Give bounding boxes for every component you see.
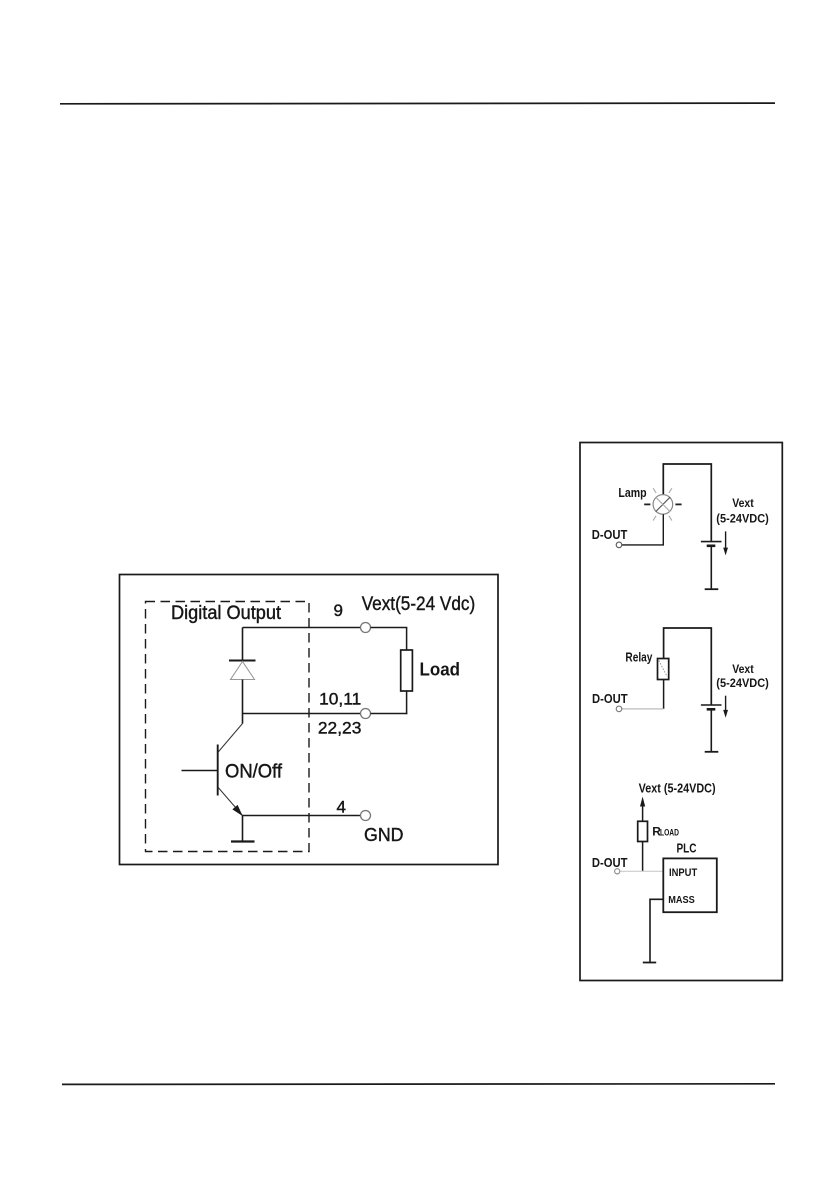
svg-text:(5-24VDC): (5-24VDC) xyxy=(716,676,769,690)
diode triangle xyxy=(231,662,255,680)
dashed boundary of Digital Output block xyxy=(146,602,310,852)
wire emitter rail xyxy=(243,815,361,817)
wire diode cathode lead xyxy=(242,628,244,661)
svg-text:MASS: MASS xyxy=(668,894,695,906)
wire diode anode to collector node xyxy=(242,680,244,724)
resistor Load body xyxy=(401,650,413,691)
D-OUT terminal circle (lamp) xyxy=(616,542,622,548)
svg-text:INPUT: INPUT xyxy=(669,867,697,879)
svg-text:9: 9 xyxy=(334,601,343,620)
ground tick (plc) xyxy=(643,962,656,964)
transistor Q1 base lead xyxy=(182,770,218,772)
svg-text:Vext(5-24 Vdc): Vext(5-24 Vdc) xyxy=(362,594,476,615)
supply arrow up xyxy=(640,797,645,807)
transistor Q1 base bar xyxy=(217,745,219,796)
battery B2 short plate xyxy=(707,708,716,711)
transistor Q1 emitter lead xyxy=(218,788,242,816)
wire resistor bottom lead xyxy=(642,842,644,872)
battery B1 short plate xyxy=(707,544,716,547)
bottom horizontal rule xyxy=(62,1083,775,1086)
battery B2 bottom tick xyxy=(705,751,719,753)
pin 9 terminal circle xyxy=(361,623,371,633)
wire middle rail right segment xyxy=(371,713,408,715)
svg-text:Lamp: Lamp xyxy=(618,485,646,500)
wire top rail left segment xyxy=(243,627,361,629)
top horizontal rule xyxy=(60,102,775,105)
current direction arrow (relay) xyxy=(725,696,727,712)
wire top rail right segment xyxy=(371,627,408,629)
lamp L1 circle xyxy=(653,495,673,515)
wire relay bottom lead xyxy=(663,680,665,709)
D-OUT terminal circle (relay) xyxy=(616,706,622,712)
ground bar xyxy=(231,840,255,842)
svg-text:Relay: Relay xyxy=(625,649,653,664)
lamp L1 cross diagonal light xyxy=(656,497,670,511)
battery B2 long plate xyxy=(701,704,722,706)
svg-text:Digital Output: Digital Output xyxy=(171,603,282,624)
pin 10,11 terminal circle xyxy=(361,709,371,719)
figure frame box xyxy=(120,575,499,865)
battery B1 bottom tick xyxy=(705,588,719,590)
svg-text:D-OUT: D-OUT xyxy=(592,691,628,706)
wire down to load top xyxy=(406,628,408,651)
svg-text:22,23: 22,23 xyxy=(318,719,362,738)
lamp L1 ray dashes xyxy=(653,488,672,520)
svg-text:Vext: Vext xyxy=(732,662,754,676)
svg-text:PLC: PLC xyxy=(677,840,697,855)
wire to D-OUT (relay, light) xyxy=(622,708,664,710)
wire lamp top rail xyxy=(663,464,711,541)
battery B1 long plate xyxy=(701,541,722,543)
lamp L1 cross diagonal dark xyxy=(656,497,670,511)
wire MASS to ground xyxy=(650,899,663,962)
wire load bottom xyxy=(406,691,408,714)
pin 4 terminal circle xyxy=(361,811,371,821)
wire emitter to ground xyxy=(242,816,244,842)
PLC box xyxy=(663,858,717,912)
resistor Rload body xyxy=(638,821,648,841)
svg-text:GND: GND xyxy=(364,825,404,845)
wire battery B1 bottom lead xyxy=(710,546,712,589)
relay K1 coil body xyxy=(658,659,669,680)
svg-text:D-OUT: D-OUT xyxy=(592,855,628,870)
wire battery B2 bottom lead xyxy=(710,709,712,751)
relay K1 coil diagonal xyxy=(659,661,668,677)
D-OUT terminal circle (plc) xyxy=(615,869,620,874)
svg-text:Vext: Vext xyxy=(732,496,754,510)
transistor Q1 collector lead xyxy=(218,724,242,753)
current direction arrow (lamp) xyxy=(725,531,727,549)
wire to D-OUT (plc, light) xyxy=(620,870,663,872)
wire lamp bottom lead xyxy=(622,514,664,545)
wire relay top rail xyxy=(664,628,712,705)
lamp L1 side tick left xyxy=(644,503,650,505)
svg-text:ON/Off: ON/Off xyxy=(225,762,283,783)
svg-text:Load: Load xyxy=(420,660,461,680)
svg-text:LOAD: LOAD xyxy=(660,828,679,838)
svg-text:D-OUT: D-OUT xyxy=(592,527,628,542)
transistor Q1 emitter arrowhead xyxy=(233,806,241,815)
svg-text:(5-24VDC): (5-24VDC) xyxy=(716,511,769,525)
diode cathode bar xyxy=(229,660,256,662)
right figure frame box xyxy=(580,443,782,981)
lamp L1 side tick right xyxy=(675,503,681,505)
svg-text:4: 4 xyxy=(337,798,346,817)
svg-text:Vext (5-24VDC): Vext (5-24VDC) xyxy=(639,781,716,796)
wire middle rail left segment xyxy=(243,713,361,715)
svg-text:10,11: 10,11 xyxy=(319,690,361,709)
